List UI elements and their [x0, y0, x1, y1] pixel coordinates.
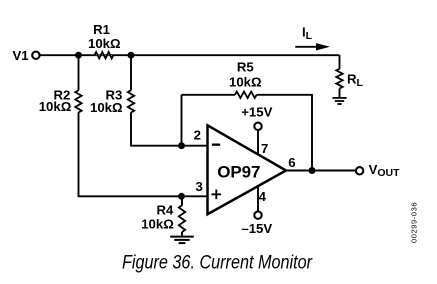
terminal +15V pin 7	[254, 123, 261, 130]
svg-text:4: 4	[259, 189, 267, 204]
wire feedback top right down to output	[257, 95, 312, 171]
svg-text:00299-036: 00299-036	[410, 203, 419, 244]
terminal VOUT	[356, 167, 363, 174]
resistor R1	[95, 52, 114, 58]
svg-text:Figure 36. Current Monitor: Figure 36. Current Monitor	[122, 252, 313, 274]
svg-text:–15V: –15V	[241, 221, 272, 236]
resistor R2	[75, 90, 81, 112]
terminal -15V pin 4	[254, 211, 261, 218]
junction node R1/R3	[128, 52, 135, 59]
resistor R3	[128, 90, 134, 112]
ground symbol at RL	[332, 98, 346, 104]
op-amp U1 OP97 triangle	[208, 125, 287, 214]
svg-text:7: 7	[261, 141, 268, 156]
svg-text:R5: R5	[237, 60, 254, 75]
wire R3 branch upper	[130, 55, 132, 90]
svg-text:6: 6	[288, 155, 295, 170]
svg-text:3: 3	[195, 179, 202, 194]
resistor RL	[336, 69, 342, 89]
wire top rail from V1 to RL corner	[40, 54, 339, 56]
wire RL branch down from top rail	[339, 55, 341, 69]
terminal V1	[32, 52, 39, 59]
svg-text:10kΩ: 10kΩ	[88, 36, 121, 51]
svg-text:10kΩ: 10kΩ	[39, 99, 72, 114]
svg-text:R4: R4	[156, 202, 174, 217]
svg-text:R1: R1	[93, 22, 110, 37]
op-amp inverting input marker	[212, 144, 220, 146]
wire R3 down and right to pin 2 node	[131, 112, 182, 145]
ground symbol at R4	[170, 237, 194, 244]
wire RL bottom lead to ground	[339, 89, 341, 98]
resistor R4	[179, 205, 185, 232]
wire pin 4 supply lead	[257, 186, 259, 211]
junction node pin 3 / R4	[178, 193, 185, 200]
wire R4 bottom lead to ground	[181, 232, 183, 236]
op-amp non-inverting input marker	[212, 190, 222, 200]
junction node output / feedback	[309, 167, 316, 174]
wire feedback top left segment	[182, 94, 236, 96]
junction node V1/R1/R2	[75, 52, 82, 59]
wire R2 down and right to pin 3 node	[79, 112, 182, 196]
svg-text:OP97: OP97	[217, 162, 260, 181]
arrowhead IL	[316, 43, 330, 50]
wire R2 branch upper	[78, 55, 80, 90]
svg-text:V1: V1	[12, 48, 28, 63]
svg-text:10kΩ: 10kΩ	[141, 216, 174, 231]
arrow IL	[295, 46, 318, 48]
wire R4 top lead	[181, 196, 183, 205]
wire pin 3 stub into op-amp	[182, 195, 209, 197]
svg-text:10kΩ: 10kΩ	[90, 100, 123, 115]
svg-text:+15V: +15V	[241, 105, 272, 120]
junction node pin 2 / feedback	[178, 142, 185, 149]
svg-text:10kΩ: 10kΩ	[229, 74, 262, 89]
wire pin 7 supply lead	[257, 131, 259, 155]
wire output from pin 6 to VOUT terminal	[286, 170, 355, 172]
resistor R5	[235, 92, 257, 98]
wire pin 2 stub into op-amp	[182, 145, 209, 147]
svg-text:2: 2	[194, 128, 201, 143]
wire feedback vertical (node pin 2)	[181, 95, 183, 146]
